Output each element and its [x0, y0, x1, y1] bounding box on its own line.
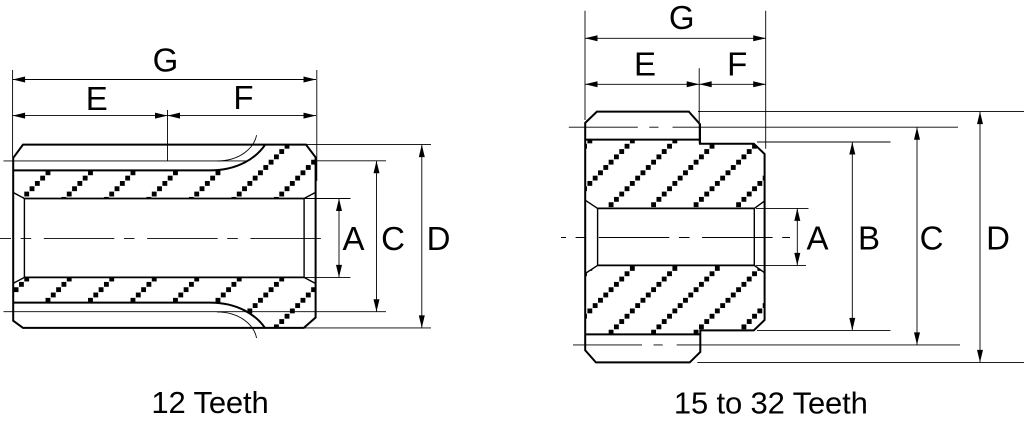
dimension C left vertical: [376, 161, 378, 312]
dimension A left vertical: [338, 199, 340, 278]
arrowheads F right drawing: [699, 81, 712, 87]
bore chamfer diagonals right gear: [585, 200, 764, 273]
dimension D left vertical: [421, 145, 423, 328]
bore chamfer diagonals right: [304, 193, 315, 283]
dimension G line right drawing: [585, 37, 766, 39]
extension line G left (right gear): [584, 11, 586, 120]
gear outline right: [585, 112, 764, 363]
svg-text:12 Teeth: 12 Teeth: [151, 385, 268, 420]
svg-text:B: B: [858, 220, 880, 257]
bore top line: [24, 198, 304, 200]
svg-text:F: F: [233, 79, 253, 116]
arrowheads G right drawing: [585, 35, 598, 41]
extension line G right (right gear): [765, 11, 767, 149]
root line bottom (thick, curving into bottom edge): [13, 303, 265, 329]
extension lines B right gear: [757, 142, 891, 330]
arrowheads C right gear: [914, 127, 920, 140]
bore chamfer edge verticals: [24, 199, 304, 278]
arrowheads A right gear: [794, 208, 800, 221]
pitch curve bottom (branches down across bottom edge): [217, 312, 257, 338]
extension lines D left gear: [304, 145, 431, 328]
hatch bottom band left gear: [13, 277, 315, 328]
arrowheads C left gear: [374, 161, 380, 174]
svg-text:15 to 32 Teeth: 15 to 32 Teeth: [674, 386, 868, 421]
arrowheads E left: [13, 113, 26, 119]
arrowheads B right gear: [849, 142, 855, 155]
svg-text:A: A: [342, 220, 364, 257]
extension line G/F right: [316, 70, 318, 181]
dimension A right vertical: [796, 208, 798, 265]
extension line C top left gear: [316, 160, 386, 162]
pitch line bottom right gear: [573, 344, 700, 346]
extension lines A left gear: [304, 199, 350, 278]
arrowheads F left: [168, 113, 181, 119]
pitch line top right gear (dash-dot then solid to C): [569, 126, 700, 128]
bore chamfer diagonals left: [13, 193, 24, 284]
arrowheads E right drawing: [585, 81, 598, 87]
svg-text:E: E: [634, 46, 656, 83]
dimension B right vertical: [851, 142, 853, 330]
svg-text:E: E: [86, 80, 108, 117]
bore bottom line: [24, 276, 304, 278]
dimension E/F line: [13, 115, 316, 117]
bore chamfer edge verticals right gear: [598, 208, 755, 265]
extension line E/F middle (right gear): [698, 68, 700, 143]
arrowheads D left gear: [419, 145, 425, 158]
pitch line top (thin, ends at root curve): [4, 160, 249, 162]
dimension E/F line right drawing: [585, 83, 766, 85]
svg-text:G: G: [153, 41, 179, 78]
dimension G left: [13, 79, 316, 81]
svg-text:D: D: [986, 220, 1010, 257]
svg-text:A: A: [806, 220, 828, 257]
svg-text:G: G: [669, 0, 695, 36]
bore top line right gear: [598, 207, 755, 209]
root line bottom right gear: [585, 333, 700, 335]
svg-text:C: C: [381, 220, 405, 257]
extension lines D right gear: [697, 112, 1024, 363]
svg-text:D: D: [427, 220, 451, 257]
dimension C right vertical: [916, 127, 918, 345]
dimension D right vertical: [979, 112, 981, 363]
svg-text:F: F: [727, 46, 747, 83]
pitch curve top (branches up across tip line): [217, 135, 257, 161]
extension lines A right gear: [756, 208, 809, 265]
centerline left gear: [0, 237, 324, 239]
hatch top band right gear: [585, 140, 764, 209]
arrowheads D right gear: [977, 112, 983, 125]
arrowheads G left: [13, 77, 26, 83]
svg-text:C: C: [920, 220, 944, 257]
bore bottom line right gear: [598, 264, 755, 266]
pitch line bottom (thin, full width to C arrow): [4, 311, 387, 313]
hatch top band left gear: [13, 145, 315, 199]
root line top right gear: [585, 139, 700, 141]
centerline right gear: [561, 237, 790, 239]
hatch bottom band right gear: [585, 265, 764, 334]
extension line G/E left: [12, 70, 14, 158]
extension line E/F middle: [167, 110, 169, 161]
arrowheads A left gear: [336, 199, 342, 212]
root line top (thick, curving into top edge): [13, 145, 265, 171]
gear outline left: [13, 145, 315, 328]
